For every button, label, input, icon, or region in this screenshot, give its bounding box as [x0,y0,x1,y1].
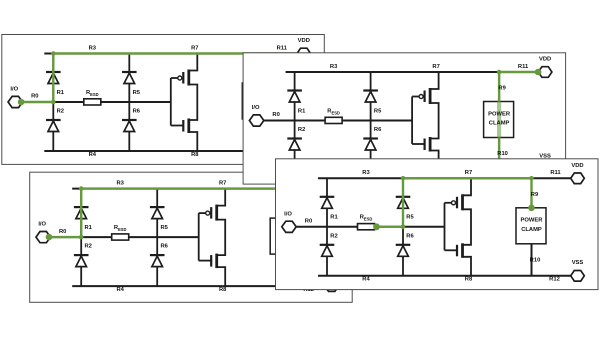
svg-text:RESD: RESD [327,108,340,115]
wire diode D2 branch lower (A) [52,102,54,151]
power clamp U1 (D) [516,208,546,244]
svg-text:VDD: VDD [539,57,551,63]
wire diode D5 branch upper (A) [128,54,130,103]
power clamp text (A) [247,93,270,108]
resistor RESD (A) [84,99,101,105]
transistor M2 NMOS gate bar (D) [456,245,458,256]
VDD pad (A) [297,48,311,59]
I/O pad (C) [36,232,50,243]
svg-text:VSS: VSS [572,260,584,266]
diode D6 (label R6) (D) [398,246,409,256]
svg-text:R6: R6 [160,244,168,250]
transistor M1 PMOS gate bar (D) [456,197,458,209]
wire R3 top rail left (C) [72,188,157,190]
wire diode D2 branch lower (B) [294,121,296,170]
wire PMOS gate (D) [445,202,452,204]
panel B frame [243,53,565,184]
svg-text:R9: R9 [531,192,539,198]
svg-text:R3: R3 [362,170,370,176]
svg-text:I/O: I/O [252,105,260,111]
svg-text:R0: R0 [305,219,312,225]
wire RESD to R5 column (A) [100,101,129,103]
svg-text:R0: R0 [59,229,66,235]
svg-text:RESD: RESD [114,225,127,232]
power clamp text (D) [521,218,544,233]
wire NMOS gate (C) [199,260,212,262]
wire R3 top rail left (B) [286,71,371,73]
svg-text:R7: R7 [465,170,472,176]
svg-text:R7: R7 [432,64,439,70]
svg-text:R3: R3 [330,64,338,70]
transistor M1 PMOS gate bubble (B) [419,95,423,99]
wire R11 top rail right (D) [532,177,571,179]
wire gate input line (C) [198,213,200,261]
wire diode D5 branch upper (D) [402,178,404,227]
VDD pad (C) [325,183,339,194]
wire RESD to R5 column (B) [342,120,371,122]
svg-text:R1: R1 [84,225,92,231]
diode D2 (label R2) (C) [76,256,87,267]
svg-text:R12: R12 [549,277,560,283]
wire RESD to R5 column (D) [374,226,403,228]
svg-text:R4: R4 [116,287,124,293]
wire diode D6 branch lower (D) [402,227,404,276]
wire NMOS gate (A) [171,125,184,127]
I/O pad (B) [249,115,263,126]
VSS pad (A) [297,146,311,157]
power clamp U1 (C) [270,218,300,254]
I/O pad (D) [282,221,296,232]
wire R5 column to gate (C) [157,236,199,238]
wire R8/R12 bottom rail right (C) [222,285,325,287]
wire R0 from I/O pad (A) [22,101,53,103]
svg-text:CLAMP: CLAMP [521,227,542,233]
svg-text:RESD: RESD [86,90,99,97]
diode D5 (label R5) (A) [124,73,135,84]
wire NMOS gate (D) [445,249,458,251]
wire R4 bottom rail (D) [318,275,468,277]
wire R11 top rail right (B) [499,71,538,73]
transistor pair M1/M2 drain-source line (C) [217,189,226,287]
svg-text:R1: R1 [298,108,306,114]
svg-text:R2: R2 [84,244,91,250]
transistor pair M1/M2 drain-source line (B) [430,72,439,170]
wire R10 clamp lead lower (B) [498,138,500,170]
diode D1 (label R1) (C) [76,208,87,219]
green node dots discharge path (A) [18,51,56,105]
wire PMOS gate (A) [171,77,178,79]
svg-text:POWER: POWER [488,111,511,117]
wire R0 from I/O pad (D) [296,226,327,228]
svg-text:R2: R2 [330,233,337,239]
diode D2 (label R2) (B) [289,140,300,151]
svg-text:R0: R0 [272,112,279,118]
wire R9 clamp lead upper (A) [257,54,259,84]
transistor M1 PMOS gate bubble (D) [452,201,456,205]
VSS pad (D) [571,271,585,282]
diode D5 (label R5) (D) [398,198,409,209]
diode D6 (label R6) (B) [365,140,376,151]
svg-text:R3: R3 [116,180,124,186]
svg-text:VDD: VDD [571,163,583,169]
svg-text:I/O: I/O [38,222,46,228]
transistor M2 NMOS channel bar (B) [429,137,432,152]
svg-text:POWER: POWER [521,218,544,224]
svg-text:R7: R7 [191,45,198,51]
wire gate input line (D) [444,203,446,251]
wire R9 clamp lead upper (C) [285,189,287,219]
transistor M2 NMOS gate bar (B) [424,139,426,151]
svg-text:R5: R5 [133,90,141,96]
diode D6 (label R6) (C) [152,256,163,267]
wire R5 column to gate (D) [403,226,445,228]
wire NMOS gate (B) [412,143,425,145]
diode D2 (label R2) (D) [322,246,333,256]
transistor M1 PMOS gate bubble (A) [178,76,182,80]
svg-text:R2: R2 [57,109,64,115]
svg-text:R2: R2 [298,127,305,133]
wire R9 clamp lead upper (B) [498,72,500,102]
green ESD discharge path (D) [375,178,532,227]
wire R7 top rail middle (A) [129,53,257,55]
diode D5 (label R5) (B) [365,92,376,103]
transistor M2 NMOS channel bar (A) [187,119,190,134]
wire R8/R12 bottom rail right (B) [436,169,538,171]
wire R5 column to gate (B) [371,120,413,122]
wire diode D6 branch lower (B) [370,121,372,170]
wire R9 clamp lead upper (D) [531,178,533,208]
transistor M1 PMOS channel bar (A) [187,70,190,86]
diode D5 (label R5) (C) [152,208,163,219]
green node dots discharge path (D) [373,176,535,230]
svg-text:R4: R4 [89,152,97,158]
svg-text:R0: R0 [31,94,38,100]
diode D1 (label R1) (B) [289,92,300,103]
wire R0 from I/O pad (C) [50,236,81,238]
wire diode D5 branch upper (B) [370,72,372,121]
wire diode D1 branch upper (C) [80,189,82,238]
transistor pair M1/M2 drain-source line (D) [463,178,472,275]
wire R10 clamp lead lower (C) [285,254,287,286]
wire R4 bottom rail (C) [72,285,222,287]
wire R4 bottom rail (B) [286,169,436,171]
resistor RESD (B) [325,117,342,123]
wire diode D2 branch lower (C) [80,237,82,286]
transistor M1 PMOS gate bar (B) [424,91,426,103]
svg-text:R8: R8 [465,277,473,283]
diode D6 (label R6) (A) [124,121,135,132]
svg-text:R9: R9 [498,86,506,92]
diode D1 (label R1) (A) [48,73,59,84]
svg-text:R11: R11 [518,64,529,70]
wire diode D1 branch upper (B) [294,72,296,121]
wire diode D6 branch lower (C) [156,237,158,286]
svg-text:R11: R11 [277,45,288,51]
wire RESD to R5 column (C) [128,236,157,238]
transistor M2 NMOS gate bar (C) [210,255,212,267]
svg-text:I/O: I/O [10,87,18,93]
svg-text:R10: R10 [530,257,541,263]
svg-text:R5: R5 [406,215,414,221]
svg-text:R10: R10 [497,151,508,157]
wire node to RESD (A) [53,101,84,103]
green node dots discharge path (C) [46,186,84,240]
svg-text:CLAMP: CLAMP [489,121,510,127]
wire R11 top rail right (A) [258,53,297,55]
wire R8/R12 bottom rail right (A) [194,150,296,152]
power clamp text (C) [275,228,298,243]
svg-text:I/O: I/O [284,211,292,217]
transistor M1 PMOS channel bar (C) [215,205,218,221]
wire gate input line (B) [411,97,413,145]
power clamp U1 (B) [484,102,514,138]
svg-text:R7: R7 [219,180,226,186]
VDD pad (D) [571,173,585,184]
svg-text:R8: R8 [219,287,227,293]
svg-text:VDD: VDD [298,38,310,44]
transistor M2 NMOS gate bar (A) [182,120,184,132]
svg-text:R5: R5 [374,108,382,114]
wire gate input line (A) [170,78,172,126]
wire node to RESD (D) [327,226,358,228]
wire diode D5 branch upper (C) [156,189,158,238]
green ESD discharge path (C) [50,189,325,238]
wire R7 top rail middle (B) [371,71,500,73]
panel C frame [30,172,353,302]
wire PMOS gate (C) [199,212,206,214]
transistor M1 PMOS channel bar (D) [461,194,464,210]
diode D1 (label R1) (D) [322,198,333,209]
panel D frame [276,159,599,290]
VSS pad (C) [325,281,339,292]
wire R5 column to gate (A) [129,101,171,103]
resistor RESD (D) [358,224,375,230]
svg-text:RESD: RESD [360,215,373,222]
wire node to RESD (C) [81,236,112,238]
VSS pad (B) [538,164,552,175]
svg-text:R3: R3 [89,45,97,51]
wire diode D1 branch upper (D) [326,178,328,227]
wire R3 top rail left (A) [44,53,129,55]
wire node to RESD (B) [295,120,326,122]
wire PMOS gate (B) [412,96,419,98]
wire R3 top rail left (D) [318,177,403,179]
green ESD discharge path (B) [499,72,538,170]
VDD pad (B) [538,67,552,78]
transistor M1 PMOS gate bar (C) [210,207,212,219]
power clamp U1 (A) [242,83,272,119]
wire diode D1 branch upper (A) [52,54,54,103]
resistor RESD (C) [112,234,129,240]
I/O pad (A) [8,96,22,107]
wire R4 bottom rail (A) [44,150,194,152]
transistor pair M1/M2 drain-source line (A) [189,54,198,152]
green ESD discharge path (A) [22,54,297,103]
panel A frame [2,35,325,165]
svg-text:R6: R6 [406,233,414,239]
svg-text:R1: R1 [57,90,65,96]
svg-text:R6: R6 [133,109,141,115]
transistor M1 PMOS gate bar (A) [182,72,184,84]
diode D2 (label R2) (A) [48,121,59,132]
wire diode D2 branch lower (D) [326,227,328,276]
wire R7 top rail middle (D) [403,177,532,179]
svg-text:R11: R11 [550,170,561,176]
wire R0 from I/O pad (B) [264,120,295,122]
green node dots discharge path (B) [497,69,542,76]
wire R7 top rail middle (C) [157,188,286,190]
wire R10 clamp lead lower (D) [531,244,533,276]
transistor M2 NMOS channel bar (C) [215,254,218,269]
transistor M1 PMOS channel bar (B) [429,88,432,104]
svg-text:R4: R4 [362,277,370,283]
wire R11 top rail right (C) [286,188,325,190]
svg-text:R1: R1 [330,215,338,221]
transistor M1 PMOS gate bubble (C) [206,211,210,215]
wire diode D6 branch lower (A) [128,102,130,151]
wire R10 clamp lead lower (A) [257,119,259,151]
svg-text:R6: R6 [374,127,382,133]
power clamp text (B) [488,111,511,126]
transistor M2 NMOS channel bar (D) [461,243,464,257]
svg-text:R8: R8 [191,152,199,158]
svg-text:R5: R5 [160,225,168,231]
wire R8/R12 bottom rail right (D) [468,275,571,277]
